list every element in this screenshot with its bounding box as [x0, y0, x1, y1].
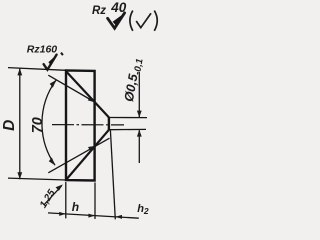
extension line from theoretical apex down (h2): [110, 130, 115, 219]
svg-text:Rz: Rz: [92, 5, 106, 17]
arrow tip at left face (points right): [59, 212, 66, 216]
70deg arc: [42, 80, 56, 165]
arrow down to flat top: [137, 111, 142, 118]
svg-text:70: 70: [30, 117, 46, 133]
arc arrow top: [50, 80, 57, 88]
arrowhead on lower 70 line at right face: [88, 146, 95, 151]
arrow down (D bottom): [17, 172, 22, 179]
leader arrowhead: [56, 184, 63, 191]
arrow tip at right face (points right): [88, 214, 95, 218]
arc arrow bottom: [49, 158, 56, 166]
svg-text:D: D: [1, 120, 18, 131]
bottom dimension line h / h2: [48, 213, 139, 218]
dia dimension line lower part: [138, 130, 140, 163]
extension line from flat top: [109, 117, 147, 119]
extension line below right face: [94, 183, 96, 220]
arrow up to flat bottom: [137, 130, 142, 137]
disc body rectangle: [66, 70, 95, 180]
(v) checked-symbol in parentheses: [130, 11, 157, 31]
70deg lower dimension line: [48, 138, 109, 173]
leader 1,25 chamfer: [44, 186, 62, 205]
axis center line: [52, 124, 124, 126]
surface finish note Rz 40 (top right): [92, 0, 127, 17]
surface finish note Rz160 (left, above disc): [27, 44, 58, 56]
apex flat (truncated tip): [108, 117, 110, 130]
arrow up (D top): [17, 68, 22, 75]
dimension D vertical line: [19, 68, 21, 179]
extension line from flat bottom: [109, 128, 146, 130]
cone lower slant: [66, 130, 109, 180]
extension line below left face: [65, 182, 67, 218]
roughness check symbol under Rz 40: [108, 13, 125, 28]
extension line top (for D): [8, 68, 66, 71]
svg-text:h: h: [72, 200, 79, 214]
roughness check symbol on top edge: [44, 55, 57, 70]
70deg upper dimension line: [48, 75, 95, 102]
speck after Rz160: [61, 53, 63, 56]
extension line bottom (for D): [8, 178, 66, 180]
cone upper slant: [66, 71, 109, 117]
dia 0,5 dimension line upper part: [138, 72, 140, 117]
arrowhead on upper 70 line at right face: [88, 96, 95, 102]
arrow tip at apex line (points left): [115, 215, 122, 219]
svg-text:Rz160: Rz160: [27, 44, 58, 56]
